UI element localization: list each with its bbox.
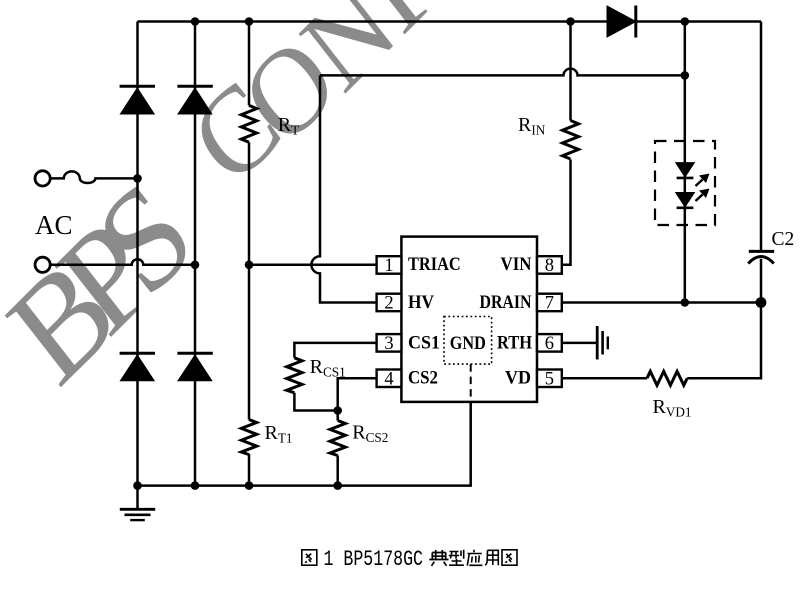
diode D4 bridge bottom-right bbox=[177, 353, 212, 381]
svg-text:RTH: RTH bbox=[497, 332, 532, 353]
wire TRIAC net bbox=[249, 264, 377, 267]
svg-text:VD: VD bbox=[505, 368, 531, 389]
node top rail leg2 bbox=[191, 17, 200, 26]
svg-text:2: 2 bbox=[384, 294, 393, 314]
svg-text:GND: GND bbox=[450, 333, 486, 354]
terminal AC top bbox=[35, 171, 50, 186]
node rail RCS2 bbox=[333, 481, 342, 490]
pin 1 box bbox=[377, 256, 402, 274]
pin 7 box bbox=[537, 294, 562, 312]
diode D1 bridge top-left bbox=[120, 86, 155, 114]
node AC bottom junction bbox=[191, 261, 200, 270]
node top rail LED bbox=[681, 17, 690, 26]
node RCS junction bbox=[333, 406, 342, 415]
svg-text:RIN: RIN bbox=[518, 114, 546, 138]
svg-text:1: 1 bbox=[384, 256, 393, 276]
resistor RCS2 bbox=[330, 421, 345, 456]
svg-text:DRAIN: DRAIN bbox=[480, 292, 532, 313]
node top rail RIN bbox=[566, 17, 575, 26]
wire AC top to bridge bbox=[50, 171, 137, 183]
resistor RIN bbox=[563, 121, 579, 159]
wire bottom rail bbox=[138, 402, 471, 486]
wire RCS2 leads bbox=[336, 411, 339, 486]
wire left bridge leg bbox=[136, 22, 139, 486]
pin 4 box bbox=[377, 370, 402, 388]
pin 8 box bbox=[537, 256, 562, 274]
svg-text:HV: HV bbox=[408, 292, 434, 313]
wire RT leg middle bbox=[248, 142, 251, 419]
node LED top tap bbox=[681, 71, 690, 80]
caption char 图 bbox=[302, 550, 317, 565]
wire LED branch bbox=[684, 22, 687, 303]
diode D5 top series bbox=[607, 6, 636, 38]
svg-text:RCS2: RCS2 bbox=[352, 421, 388, 445]
node AC top junction bbox=[133, 174, 142, 183]
LED1 arrow bbox=[696, 174, 710, 187]
capacitor C2 bbox=[748, 251, 774, 263]
wire HV loop vertical with hop bbox=[311, 75, 376, 302]
terminal AC bottom bbox=[35, 257, 50, 272]
wire RT leg lower bbox=[248, 454, 251, 486]
GND dashed stem bbox=[470, 364, 472, 402]
wire C2 branch bbox=[760, 22, 763, 303]
node TRIAC tap bbox=[245, 261, 254, 270]
LED dashed box bbox=[655, 141, 715, 225]
LED2 bbox=[676, 193, 695, 208]
wire VD net right bbox=[687, 303, 761, 379]
svg-text:8: 8 bbox=[545, 256, 554, 276]
diode D2 bridge top-right bbox=[177, 86, 212, 114]
wire HV loop horizontal bbox=[320, 69, 685, 76]
wire ground stub bbox=[136, 486, 139, 509]
svg-text:RVD1: RVD1 bbox=[653, 396, 692, 420]
pin 6 box bbox=[537, 334, 562, 352]
ground RTH bbox=[597, 326, 608, 360]
pin 2 box bbox=[377, 294, 402, 312]
pin 3 box bbox=[377, 334, 402, 352]
svg-text:7: 7 bbox=[545, 294, 554, 314]
wire second bridge leg bbox=[194, 22, 197, 486]
wire RTH net bbox=[562, 342, 596, 345]
node rail RT1 bbox=[245, 481, 254, 490]
ground main bbox=[120, 509, 155, 520]
pin 5 box bbox=[537, 370, 562, 388]
LED2 arrow bbox=[696, 189, 710, 202]
svg-text:6: 6 bbox=[545, 334, 554, 354]
svg-text:CS1: CS1 bbox=[408, 332, 440, 353]
svg-text:5: 5 bbox=[545, 369, 554, 389]
node rail gnd bbox=[133, 481, 142, 490]
diode D3 bridge bottom-left bbox=[120, 353, 155, 381]
svg-text:1 BP5178GC: 1 BP5178GC bbox=[324, 547, 424, 572]
wire CS1 net bbox=[294, 343, 376, 411]
svg-text:RCS1: RCS1 bbox=[310, 356, 346, 380]
node LED drain bbox=[681, 298, 690, 307]
caption char 型 bbox=[449, 550, 464, 565]
svg-text:VIN: VIN bbox=[501, 254, 532, 275]
wire RT leg upper bbox=[248, 22, 251, 106]
resistor RVD1 bbox=[647, 371, 687, 385]
wire AC bottom to bridge bbox=[50, 259, 195, 265]
IC U1 body bbox=[401, 237, 537, 402]
node C2 drain bbox=[756, 297, 767, 308]
svg-text:TRIAC: TRIAC bbox=[408, 254, 461, 275]
node rail leg2 bbox=[191, 481, 200, 490]
wire top rail bbox=[138, 20, 762, 23]
svg-text:4: 4 bbox=[384, 369, 393, 389]
svg-text:C2: C2 bbox=[772, 229, 795, 250]
resistor RT1 bbox=[241, 420, 256, 455]
resistor RT bbox=[241, 105, 256, 142]
wire DRAIN net bbox=[562, 301, 761, 304]
caption char 用 bbox=[485, 550, 498, 565]
svg-text:AC: AC bbox=[35, 210, 73, 240]
caption char 应 bbox=[467, 550, 482, 566]
svg-text:3: 3 bbox=[384, 334, 393, 354]
caption char 图 bbox=[502, 550, 517, 565]
wire VD net left bbox=[562, 377, 647, 380]
GND dotted box bbox=[444, 317, 492, 365]
caption bbox=[302, 547, 517, 572]
svg-text:RT1: RT1 bbox=[265, 422, 293, 446]
node top rail RT bbox=[245, 17, 254, 26]
svg-text:CS2: CS2 bbox=[408, 368, 438, 389]
wire VIN net bbox=[562, 22, 571, 265]
wire CS2 pin net bbox=[338, 378, 377, 410]
caption char 典 bbox=[429, 550, 448, 566]
resistor RCS1 bbox=[287, 358, 302, 393]
LED1 bbox=[676, 163, 695, 178]
